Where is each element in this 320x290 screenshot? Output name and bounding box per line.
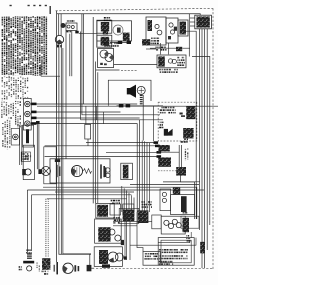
label box — [21, 152, 30, 161]
wires below boxes — [146, 48, 156, 50]
terminal block TB — [195, 15, 212, 29]
right bus wires — [186, 31, 197, 219]
center wire bundle — [141, 141, 143, 213]
door lock boxes bottom-center-left — [110, 204, 121, 215]
top inner wire — [57, 14, 200, 15]
top-right inner box A (bake relay) — [146, 17, 166, 45]
oven lamp B — [55, 35, 63, 43]
right column stack: receptacle boxes — [97, 20, 112, 33]
connector blob mid-top — [142, 39, 150, 45]
nested corners bottom-right — [158, 240, 190, 243]
part-number marks top edge — [10, 5, 12, 6]
relay cluster K1 — [61, 23, 66, 28]
bottom-left interlock box — [42, 258, 50, 270]
fan motor — [71, 165, 82, 176]
convection fan box — [50, 159, 110, 183]
buzzer bottom wire w/ plugs — [107, 101, 109, 106]
box bottom right small — [143, 251, 160, 265]
box B — [166, 18, 178, 43]
small marks inside fan box — [55, 159, 60, 162]
door lock motor M — [42, 167, 51, 176]
bottom-left plug group — [27, 253, 32, 254]
misc wires upper left — [41, 75, 60, 77]
dashed control panel box — [158, 102, 197, 141]
connector pin cluster A — [119, 208, 139, 223]
connector pin cluster B — [138, 210, 149, 223]
P-2 connector black bar — [26, 129, 29, 143]
resistor — [84, 169, 92, 174]
top-center control box — [97, 21, 132, 41]
igniter cluster — [158, 145, 169, 151]
small comps left of it — [106, 168, 110, 172]
latch motor box — [23, 145, 34, 179]
wire fan to center bundle — [86, 142, 154, 144]
bottom-right circle box — [161, 216, 185, 234]
box C — [178, 20, 188, 36]
notes text block — [2, 16, 23, 75]
dashed outer border — [56, 8, 214, 11]
wire w/ ticks y=42.4 — [110, 41, 128, 43]
horizontal bus wires — [43, 187, 197, 219]
wires below clusters — [113, 221, 152, 223]
bottom column: three switch units — [96, 203, 114, 218]
P1 connector wires — [31, 103, 137, 105]
P1 connector — [23, 98, 31, 130]
bottom motor (door lock) — [63, 263, 73, 273]
wire bends center-bottom — [137, 212, 143, 251]
speaker — [127, 88, 130, 94]
left bus wires — [56, 11, 58, 262]
cap bars — [56, 165, 57, 177]
relay box mid-left-bottom — [121, 163, 133, 179]
oven light pair — [100, 50, 108, 58]
door latch switch — [13, 134, 19, 140]
buzzer box — [108, 80, 151, 101]
clock box — [157, 55, 186, 68]
mid-right module boxes — [160, 189, 171, 211]
bottom-right terminal text box — [158, 238, 194, 266]
box right of bottom clusters — [152, 215, 161, 229]
